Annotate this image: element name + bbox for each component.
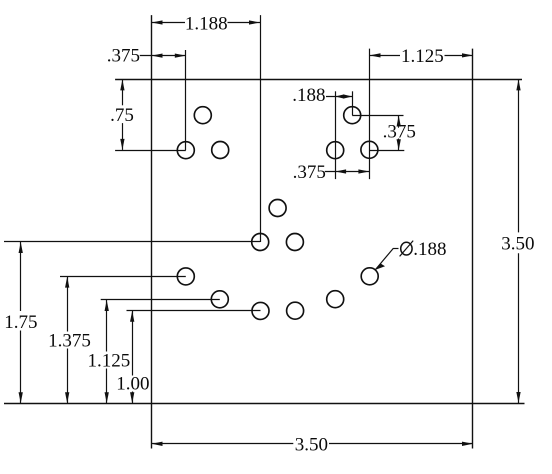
svg-text:3.50: 3.50 bbox=[501, 234, 534, 255]
svg-text:.375: .375 bbox=[107, 46, 140, 67]
svg-text:.375: .375 bbox=[383, 122, 416, 143]
svg-text:1.375: 1.375 bbox=[48, 330, 91, 351]
svg-text:3.50: 3.50 bbox=[295, 434, 328, 455]
svg-text:.375: .375 bbox=[293, 162, 326, 183]
svg-text:1.00: 1.00 bbox=[116, 373, 149, 394]
svg-text:1.125: 1.125 bbox=[401, 46, 444, 67]
svg-text:.75: .75 bbox=[110, 105, 134, 126]
svg-text:.188: .188 bbox=[292, 85, 325, 106]
svg-text:1.188: 1.188 bbox=[185, 14, 228, 35]
svg-text:1.125: 1.125 bbox=[88, 350, 131, 371]
svg-text:1.75: 1.75 bbox=[4, 312, 37, 333]
svg-text:.188: .188 bbox=[413, 239, 446, 260]
